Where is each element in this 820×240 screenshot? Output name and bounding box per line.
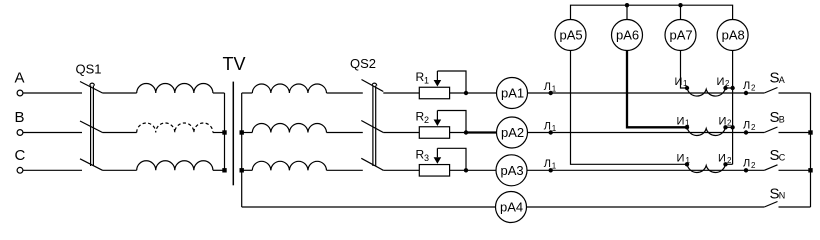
svg-text:И: И xyxy=(677,152,685,164)
switch SB xyxy=(764,109,810,132)
wire R2 to junction xyxy=(450,132,466,134)
wire pA7 to CT row A I1 xyxy=(681,51,688,89)
wire R1 to pA1 xyxy=(450,92,497,94)
svg-text:2: 2 xyxy=(751,161,756,170)
svg-text:Л: Л xyxy=(743,120,750,132)
junction primary bus row C xyxy=(222,168,226,172)
wire pA5 to CT row C I1 xyxy=(571,51,688,165)
node L1 row B xyxy=(544,120,557,134)
svg-text:QS1: QS1 xyxy=(76,62,102,77)
svg-text:B: B xyxy=(779,115,785,125)
ammeter pA3 xyxy=(496,155,527,186)
junction secondary bus row B xyxy=(240,130,244,134)
ammeter pA8 xyxy=(717,20,748,51)
svg-text:2: 2 xyxy=(725,79,730,88)
right shorting bus xyxy=(810,93,812,207)
wire pA3 to L1 terminal C xyxy=(527,169,764,171)
svg-text:3: 3 xyxy=(424,153,429,163)
svg-text:Л: Л xyxy=(743,157,750,169)
svg-text:pA8: pA8 xyxy=(722,28,745,43)
svg-text:И: И xyxy=(719,115,727,127)
wire secondary C to QS2 xyxy=(327,169,363,171)
wire R3 to pA3 xyxy=(450,169,497,171)
svg-text:pA3: pA3 xyxy=(501,163,524,178)
svg-text:C: C xyxy=(15,147,26,164)
junction right bus row C xyxy=(808,168,812,172)
svg-text:1: 1 xyxy=(552,84,557,93)
wire secondary bus to winding B xyxy=(242,132,253,134)
svg-text:pA6: pA6 xyxy=(616,28,639,43)
ammeter pA4 xyxy=(496,192,527,223)
ammeter pA2 xyxy=(497,117,528,148)
node L1 row C xyxy=(544,158,557,172)
wire pA6 to CT row B I1 (bold) xyxy=(627,51,688,128)
transformer TV secondary winding A xyxy=(252,84,326,93)
wire phase B input xyxy=(23,132,82,134)
wire pA8 to I2 bus xyxy=(732,51,734,165)
wire primary A to star bus xyxy=(213,92,225,94)
wire R2 junction to pA2 (bold) xyxy=(465,131,497,133)
wire QS2 to R2 xyxy=(383,132,419,134)
transformer core xyxy=(232,82,234,186)
svg-text:pA1: pA1 xyxy=(501,86,524,101)
svg-text:2: 2 xyxy=(751,84,756,93)
wire phase C input xyxy=(23,169,82,171)
svg-text:1: 1 xyxy=(424,76,429,86)
wire phase A input xyxy=(23,92,82,94)
svg-text:C: C xyxy=(779,152,786,162)
svg-text:Л: Л xyxy=(743,80,750,92)
svg-text:Л: Л xyxy=(544,158,551,170)
svg-text:2: 2 xyxy=(424,115,429,125)
stub pA6 top xyxy=(626,5,628,20)
svg-text:И: И xyxy=(675,76,683,88)
junction secondary bus row C xyxy=(240,168,244,172)
wire secondary bus to winding A xyxy=(242,92,253,94)
svg-text:pA4: pA4 xyxy=(500,200,523,215)
transformer TV primary winding C xyxy=(137,161,213,171)
wire primary C to star bus xyxy=(213,169,225,171)
node L1 row A xyxy=(544,81,557,95)
wire QS1 to TV primary B xyxy=(103,132,137,134)
svg-text:И: И xyxy=(677,115,685,127)
svg-text:1: 1 xyxy=(552,162,557,171)
ammeter pA7 xyxy=(665,20,696,51)
rheostat R2 xyxy=(416,110,469,139)
wire pA2 to L1 terminal B xyxy=(528,132,765,134)
secondary star bus xyxy=(241,93,243,207)
svg-text:B: B xyxy=(15,109,25,126)
svg-text:1: 1 xyxy=(683,79,688,88)
svg-text:pA5: pA5 xyxy=(560,28,583,43)
junction top bus pA7 xyxy=(678,3,682,7)
switch SN xyxy=(764,185,810,207)
phase terminal B xyxy=(15,109,25,135)
phase terminal A xyxy=(15,70,25,96)
current transformer TA row C secondary xyxy=(677,152,733,172)
wire QS1 to TV primary A xyxy=(103,92,137,94)
svg-text:2: 2 xyxy=(727,156,732,165)
svg-text:N: N xyxy=(779,191,786,201)
transformer TV secondary winding C xyxy=(252,161,326,170)
svg-text:1: 1 xyxy=(686,156,691,165)
top bus ammeters xyxy=(571,5,733,20)
primary star bus xyxy=(224,93,226,170)
ammeter pA6 xyxy=(612,20,643,51)
svg-text:2: 2 xyxy=(727,118,732,127)
wire secondary neutral row N xyxy=(242,206,496,208)
current transformer TA row A secondary xyxy=(675,76,735,96)
svg-text:И: И xyxy=(717,76,725,88)
switch QS2 xyxy=(350,56,383,170)
rheostat R1 xyxy=(416,70,469,99)
transformer TV primary winding B xyxy=(137,123,213,133)
stub pA7 top xyxy=(680,5,682,20)
svg-text:A: A xyxy=(779,75,785,85)
svg-text:1: 1 xyxy=(685,118,690,127)
wire secondary B to QS2 xyxy=(327,132,363,134)
transformer TV secondary winding B xyxy=(252,124,326,133)
wire primary B to star bus xyxy=(213,132,225,134)
wire QS1 to TV primary C xyxy=(103,169,137,171)
junction primary bus row B xyxy=(222,130,226,134)
phase terminal C xyxy=(15,147,26,173)
junction right bus row B xyxy=(808,130,812,134)
rheostat R3 xyxy=(416,148,469,177)
wire QS2 to R3 xyxy=(383,169,419,171)
wire QS2 to R1 xyxy=(383,92,419,94)
wire pA4 to SN xyxy=(527,206,765,208)
svg-text:pA2: pA2 xyxy=(501,125,524,140)
svg-text:pA7: pA7 xyxy=(670,28,693,43)
svg-text:QS2: QS2 xyxy=(350,56,376,71)
wire secondary bus to winding C xyxy=(242,169,253,171)
ammeter pA1 xyxy=(497,78,528,109)
svg-text:Л: Л xyxy=(544,120,551,132)
node L2 row B xyxy=(743,120,756,135)
svg-text:И: И xyxy=(718,152,726,164)
node L2 row C xyxy=(743,157,756,172)
current transformer TA row B secondary xyxy=(677,115,735,135)
ammeter pA5 xyxy=(555,20,586,51)
wire pA1 to L1 terminal A xyxy=(528,92,765,94)
svg-text:A: A xyxy=(15,70,25,87)
switch QS1 xyxy=(76,62,103,171)
wire secondary A to QS2 xyxy=(327,92,363,94)
node L2 row A xyxy=(743,80,756,95)
svg-text:TV: TV xyxy=(223,54,246,74)
svg-text:Л: Л xyxy=(544,81,551,93)
svg-text:1: 1 xyxy=(552,124,557,133)
junction top bus pA6 xyxy=(625,3,629,7)
switch SC xyxy=(764,147,810,170)
transformer TV primary winding A xyxy=(137,83,213,93)
svg-text:2: 2 xyxy=(751,123,756,132)
switch SA xyxy=(764,70,810,93)
